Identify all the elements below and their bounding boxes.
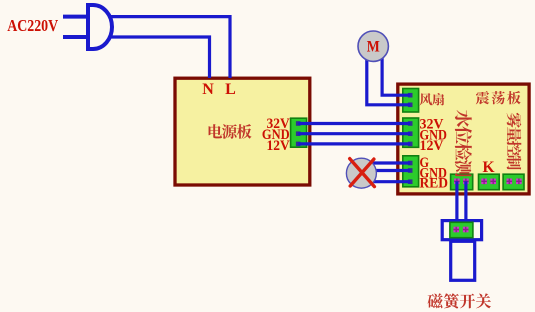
label K	[482, 159, 494, 176]
connector J2: fan (feng shan)	[403, 89, 419, 113]
power board (dian yuan ban)	[175, 78, 310, 185]
AC plug P1	[63, 5, 112, 49]
label RED	[420, 176, 449, 192]
connector J6: K left	[479, 174, 500, 190]
oscillator board (zhen dang ban)	[398, 84, 529, 194]
svg-text:12V: 12V	[420, 138, 444, 154]
wire GND: transducer to J4	[361, 169, 410, 172]
label 32V (power board)	[267, 116, 290, 132]
terminal label L	[225, 81, 236, 98]
connector J5: water level detect	[451, 174, 473, 190]
label G	[420, 155, 430, 171]
label 磁簧开关 (reed switch)	[428, 293, 491, 308]
wire GND: power board to oscillator board	[298, 132, 410, 135]
label AC220V	[7, 16, 58, 35]
wire 12V: power board to oscillator board	[298, 142, 410, 145]
label 风扇 (fan)	[420, 93, 445, 105]
label 震荡板 (oscillator board)	[476, 91, 521, 104]
wire 32V: power board to oscillator board	[298, 122, 410, 125]
wire reed switch pin 1	[455, 181, 458, 222]
wire motor to fan connector pin 2	[367, 46, 410, 105]
svg-text:K: K	[482, 159, 494, 176]
reed switch S1	[442, 221, 481, 281]
connector J3: oscillator board input 32V/GND/12V	[403, 118, 419, 147]
terminal label N	[202, 81, 214, 98]
connector J1: power board output (32V/GND/12V)	[291, 118, 307, 147]
connector J7: K right / mist control	[503, 174, 524, 190]
label GND (power board)	[262, 127, 290, 143]
svg-text:N: N	[202, 81, 214, 98]
label 电源板 (power board)	[209, 124, 252, 139]
svg-text:AC220V: AC220V	[7, 16, 58, 35]
svg-text:12V: 12V	[267, 138, 290, 154]
label 水位检测 (water level detect)	[455, 110, 472, 177]
label 12V (oscillator board)	[420, 138, 444, 154]
svg-text:M: M	[367, 39, 380, 56]
wire motor to fan connector pin 1	[382, 46, 410, 95]
label GND (transducer)	[420, 165, 448, 181]
motor M	[358, 31, 388, 61]
label 32V (oscillator board)	[420, 117, 444, 133]
label 雾量控制 (mist control)	[507, 113, 522, 170]
connector J4: transducer G/GND/RED	[403, 156, 419, 187]
wire reed switch pin 2	[464, 181, 467, 222]
wire RED: transducer to J4	[361, 180, 410, 183]
wire L: plug to power board terminal L	[100, 17, 230, 78]
svg-text:RED: RED	[420, 176, 449, 192]
svg-text:L: L	[225, 81, 236, 98]
transducer X1 (crossed out)	[346, 158, 376, 188]
wire N: plug to power board terminal N	[100, 37, 210, 78]
label 12V (power board)	[267, 138, 290, 154]
label GND (oscillator board)	[420, 127, 448, 143]
wire G: transducer to J4	[361, 161, 410, 164]
